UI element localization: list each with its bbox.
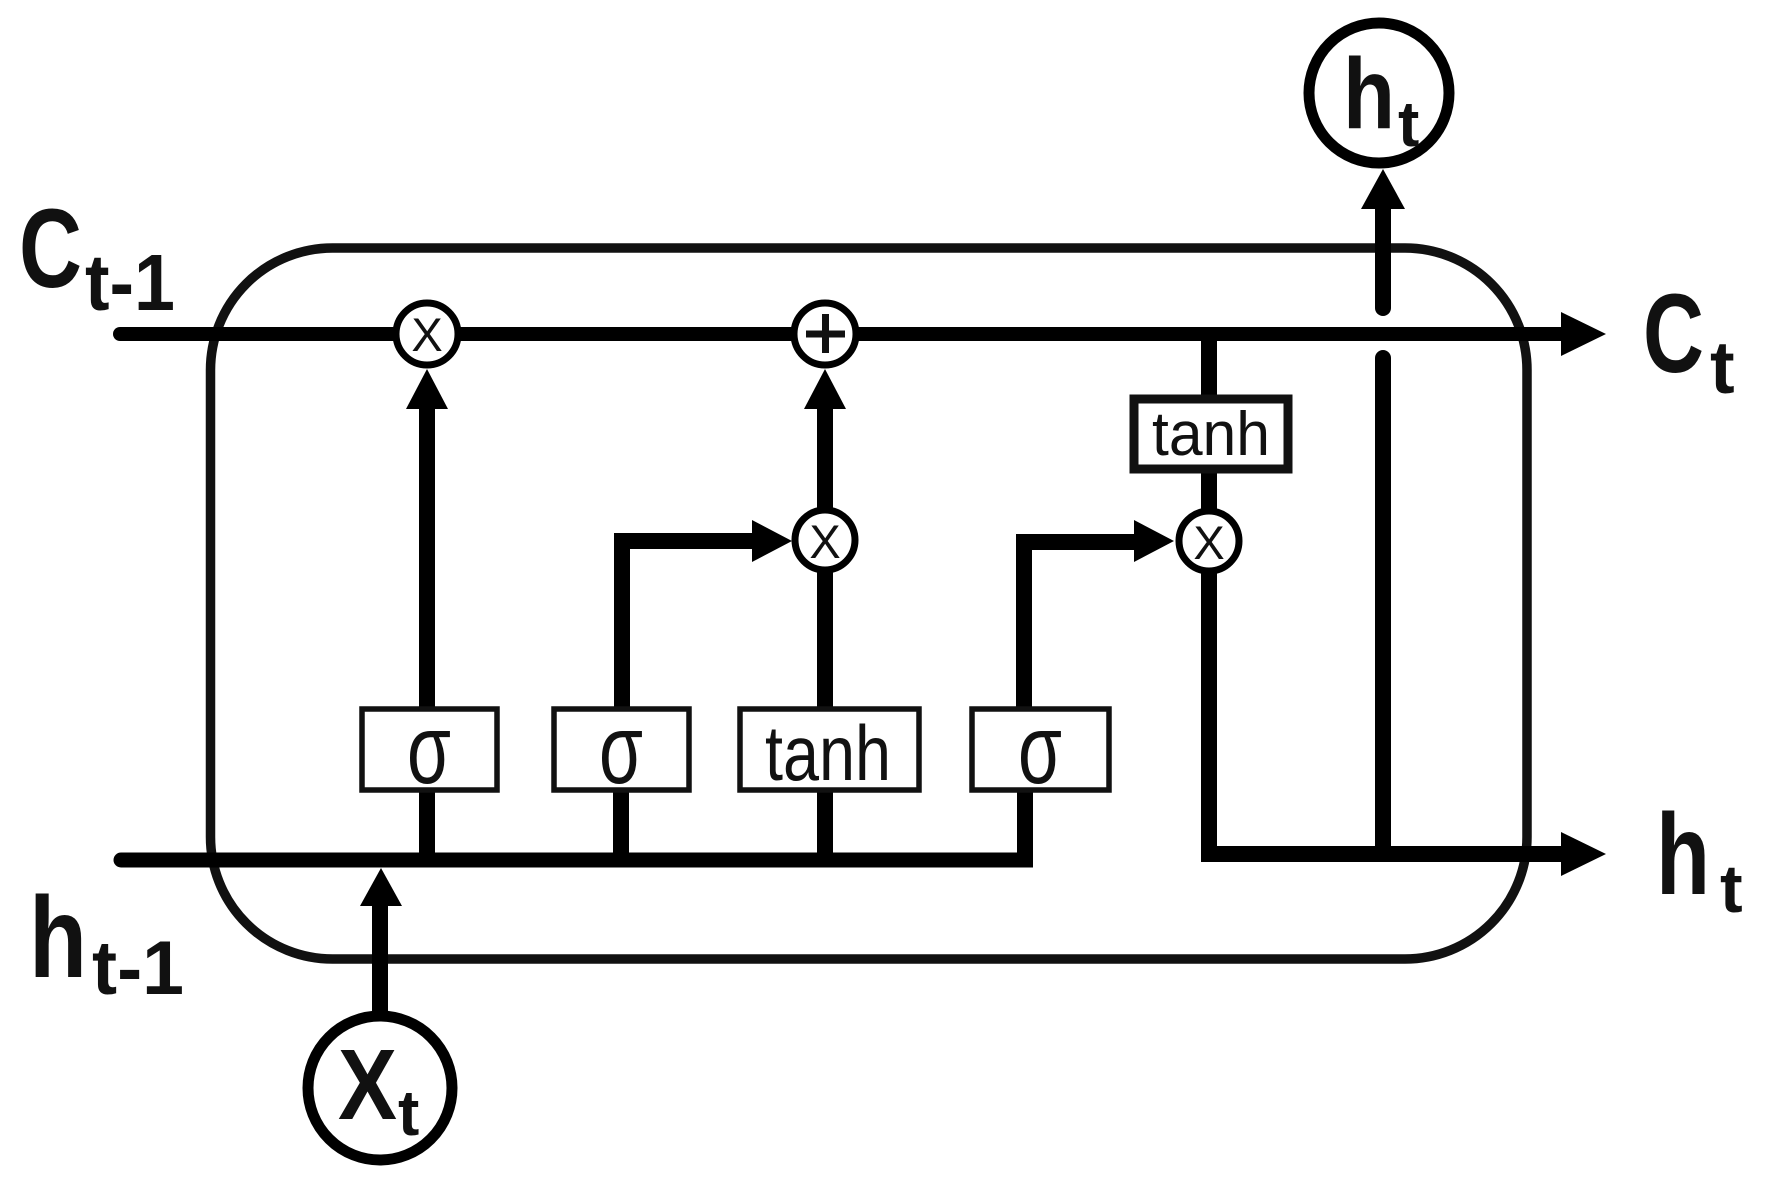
svg-text:σ: σ <box>407 694 451 804</box>
sigma2 gate box (input gate) <box>554 709 689 790</box>
wire: sigma3 box to h line <box>1017 788 1033 860</box>
wire: X_t input arrow up to h line <box>372 900 388 1014</box>
arrowhead: h_t output arrow <box>1561 832 1606 876</box>
svg-text:t: t <box>1720 851 1743 927</box>
svg-text:tanh: tanh <box>1152 400 1270 469</box>
svg-text:C: C <box>1643 271 1704 396</box>
svg-text:X: X <box>411 308 442 361</box>
svg-text:tanh: tanh <box>765 709 891 797</box>
svg-text:h: h <box>29 874 87 1002</box>
wire: h_t branch vertical upper segment <box>1375 205 1391 308</box>
arrowhead into O2 from left <box>752 520 792 562</box>
svg-text:C: C <box>19 186 82 311</box>
rounded left cap of h input line <box>121 853 135 868</box>
plus sign <box>806 331 845 338</box>
multiply node O3 <box>1179 511 1239 571</box>
svg-text:σ: σ <box>599 694 643 804</box>
arrowhead into h line from X_t <box>360 868 402 906</box>
svg-text:t: t <box>1710 326 1735 409</box>
svg-text:h: h <box>1656 791 1710 919</box>
arrowhead into add node <box>804 369 846 409</box>
node circle X_t input <box>308 1016 452 1160</box>
multiply node O1 on C line <box>396 303 458 365</box>
node circle h_t top output <box>1309 23 1449 163</box>
wire: candidate tanh up through multiply O2 to add node <box>817 405 833 712</box>
svg-text:t: t <box>1398 88 1419 160</box>
arrowhead into h_t circle <box>1361 169 1405 209</box>
arrowhead: C_t output arrow <box>1561 312 1606 356</box>
arrowhead into O3 from left <box>1134 520 1174 562</box>
svg-text:h: h <box>1343 38 1395 150</box>
svg-text:t-1: t-1 <box>92 926 184 1011</box>
svg-text:t: t <box>398 1077 419 1149</box>
wire: output gate L-shape into multiply node O3 <box>1024 542 1134 712</box>
svg-text:t-1: t-1 <box>85 238 175 327</box>
svg-text:X: X <box>338 1029 397 1141</box>
svg-text:X: X <box>1193 516 1224 569</box>
wire: C line branch down through tanh box to multiply O3 <box>1201 334 1217 530</box>
sigma1 gate box (forget gate) <box>362 709 497 790</box>
wire: sigma2 box to h line <box>613 788 629 860</box>
tanh1 gate box (candidate) <box>740 709 919 790</box>
wire: input gate L-shape into multiply node O2 <box>622 541 752 712</box>
add node on C line <box>794 303 856 365</box>
svg-text:X: X <box>809 515 840 568</box>
multiply node O2 <box>795 510 855 570</box>
wire: tanh1 box to h line <box>817 788 833 860</box>
wire: h output line from multiply node O3 <box>1209 570 1566 854</box>
wire: sigma1 box to h line <box>419 788 435 860</box>
wire: h input line horizontal <box>121 853 1033 868</box>
wire: C line horizontal <box>120 327 1570 341</box>
svg-text:σ: σ <box>1018 694 1062 804</box>
arrowhead into O1 <box>406 369 448 409</box>
wire: h_t branch vertical lower segment <box>1375 358 1391 854</box>
cell boundary rounded rectangle <box>211 248 1528 959</box>
tanh2 box on cell state branch <box>1134 399 1288 469</box>
wire: forget gate arrow up into multiply node O1 <box>419 400 435 712</box>
sigma3 gate box (output gate) <box>972 709 1109 790</box>
